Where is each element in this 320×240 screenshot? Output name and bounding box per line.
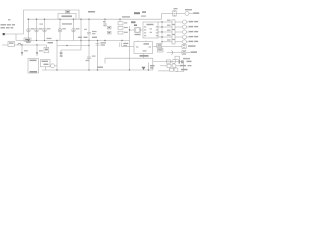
- crystal Y1: [129, 28, 143, 36]
- resistor small box mid-right: [175, 56, 180, 59]
- wire AC top loop: [24, 10, 80, 34]
- wire gnd rail y40.5: [16, 40, 130, 42]
- label box L2: [158, 49, 164, 53]
- output row 7: [167, 50, 197, 54]
- capacitor C3 x105: [103, 19, 107, 27]
- wire X2 bottom stub: [45, 67, 47, 70]
- transistor Q1: [44, 45, 49, 53]
- output row 8: [167, 58, 192, 64]
- right bus riser: [161, 14, 163, 20]
- node dots mid rails: [66, 45, 89, 46]
- bottom box X2: [41, 60, 51, 67]
- wire vertical x129.5: [129, 26, 131, 70]
- node dots HV rail: [28, 19, 121, 20]
- text 12V label left: [48, 42, 54, 43]
- wire vertical x57: [56, 41, 58, 71]
- varistor RV1 string: [27, 19, 35, 40]
- switch S1 on top rail: [66, 10, 70, 13]
- wire bottom rail y70: [42, 69, 153, 71]
- bottom left box X1: [28, 59, 39, 74]
- node dots gnd rail: [28, 40, 123, 41]
- output row 9: [160, 64, 192, 68]
- output row 6: [182, 45, 196, 49]
- capacitor C6 x122: [120, 43, 122, 48]
- text above rail x122: [122, 16, 130, 17]
- output row 10: [158, 68, 188, 72]
- wire right bottom loop: [176, 62, 184, 72]
- output row 3: [158, 30, 198, 35]
- wire HV rail y19: [27, 18, 162, 20]
- connector J1 label text: [1, 19, 16, 28]
- wire bottom long y60.8: [105, 58, 153, 63]
- text above gnd rail mid: [78, 37, 82, 38]
- wire connector to riser: [4, 33, 24, 35]
- fuse F1: [24, 38, 31, 41]
- diode D7 bottom: [142, 63, 155, 71]
- varistor RV3 string: [40, 19, 51, 40]
- regulator U2 box: [134, 42, 153, 54]
- varistor RV2 string: [35, 19, 43, 40]
- output row 1: [158, 20, 198, 25]
- cap string x73.5: [72, 19, 80, 40]
- wire vertical x97.5: [97, 41, 99, 71]
- wire connector down leg: [15, 34, 17, 41]
- transformer T1 box: [58, 14, 76, 20]
- diode D6: [36, 45, 43, 56]
- comp on x61: [60, 50, 62, 57]
- net label tr-out: [88, 11, 95, 13]
- wire vertical x89: [88, 19, 90, 70]
- output row 5: [161, 39, 198, 44]
- cap pair col A: [108, 26, 112, 34]
- diode D5: [21, 45, 28, 56]
- cap string x60: [58, 19, 66, 40]
- cap col B stack: [118, 19, 128, 34]
- text cluster x134 y12: [134, 12, 140, 14]
- output row 2: [158, 25, 198, 30]
- text above wire: [26, 42, 31, 43]
- wire U2 top stubs: [137, 41, 139, 42]
- wire K1 to right: [15, 44, 47, 46]
- wire U2 left pin: [122, 46, 134, 48]
- right bus faint vertical: [161, 22, 163, 41]
- capacitor C1 on x89: [84, 29, 97, 35]
- wire mid rail y45.5: [57, 45, 89, 47]
- text left of U2: [123, 43, 128, 44]
- wire U2 bottom stub: [143, 54, 145, 59]
- MCU U1 box: [143, 22, 158, 38]
- wire mid rail y50: [61, 49, 81, 51]
- relay K1 box: [8, 42, 15, 47]
- output row 0: [162, 8, 200, 16]
- buzzer LS1: [51, 64, 55, 68]
- label box L1: [157, 44, 162, 48]
- output row 4: [158, 35, 198, 40]
- text M label: [131, 21, 136, 23]
- capacitor C2 on x89 lower: [86, 56, 96, 62]
- wire U2 right pin: [153, 46, 183, 48]
- transformer label below: [62, 23, 72, 25]
- relay K1 wire left: [2, 44, 8, 46]
- wire vertical x152.8: [152, 58, 154, 70]
- capacitor C5 on x97.5: [96, 42, 107, 46]
- node dots bottom rail: [56, 69, 149, 70]
- text above x97.5 bottom: [97, 67, 103, 68]
- connector J1 pin: [3, 33, 5, 35]
- wire vertical x81: [80, 19, 82, 50]
- text bottom x61: [60, 52, 62, 54]
- wire right lower y61.5: [153, 61, 182, 63]
